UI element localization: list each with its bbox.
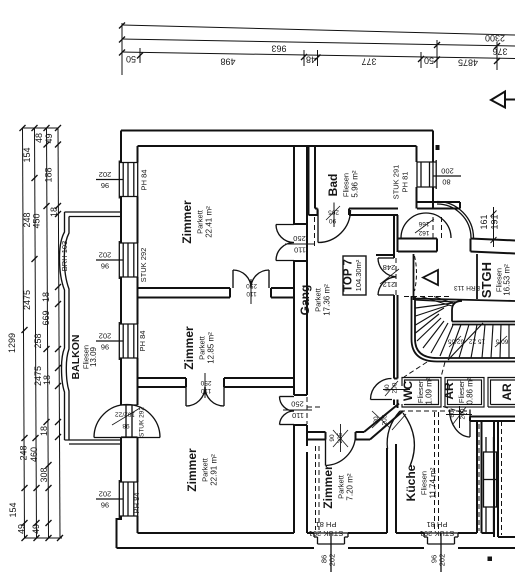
svg-text:PH 81: PH 81 bbox=[401, 172, 410, 193]
svg-text:200: 200 bbox=[441, 167, 454, 176]
svg-text:STUK 292: STUK 292 bbox=[139, 407, 146, 437]
svg-text:Bad: Bad bbox=[326, 174, 340, 197]
svg-text:250: 250 bbox=[293, 234, 306, 243]
svg-text:1.09 m²: 1.09 m² bbox=[425, 377, 434, 404]
svg-text:96: 96 bbox=[101, 501, 109, 510]
svg-text:191: 191 bbox=[490, 214, 500, 229]
svg-text:Zimmer: Zimmer bbox=[321, 465, 335, 509]
svg-text:248: 248 bbox=[19, 445, 29, 460]
svg-text:202: 202 bbox=[99, 170, 112, 179]
svg-text:202: 202 bbox=[99, 490, 112, 499]
svg-text:96: 96 bbox=[101, 181, 109, 190]
svg-text:96: 96 bbox=[101, 262, 109, 271]
svg-text:13.09: 13.09 bbox=[89, 346, 98, 367]
svg-text:154: 154 bbox=[22, 147, 32, 162]
svg-text:STUK 291: STUK 291 bbox=[420, 529, 455, 538]
svg-text:202: 202 bbox=[99, 251, 112, 260]
svg-text:12.85 m²: 12.85 m² bbox=[207, 332, 216, 364]
svg-text:Küche: Küche bbox=[404, 464, 418, 501]
svg-text:PH 84: PH 84 bbox=[132, 493, 141, 514]
svg-text:Parkett: Parkett bbox=[198, 335, 207, 360]
svg-text:15 22: 15 22 bbox=[468, 338, 485, 345]
svg-text:2475: 2475 bbox=[22, 290, 32, 310]
svg-text:AR: AR bbox=[500, 383, 514, 401]
svg-text:BRH 103: BRH 103 bbox=[60, 241, 69, 271]
svg-text:248: 248 bbox=[383, 263, 396, 272]
svg-text:Gang: Gang bbox=[298, 285, 312, 316]
svg-text:98: 98 bbox=[122, 422, 130, 429]
svg-text:376: 376 bbox=[492, 47, 507, 57]
svg-text:Parkett: Parkett bbox=[337, 474, 346, 499]
svg-text:18: 18 bbox=[42, 375, 52, 385]
svg-text:377: 377 bbox=[361, 57, 376, 67]
svg-text:49: 49 bbox=[17, 524, 27, 534]
svg-text:669: 669 bbox=[41, 310, 51, 325]
svg-text:90: 90 bbox=[329, 217, 337, 224]
svg-text:PH 84: PH 84 bbox=[140, 170, 149, 191]
svg-text:90: 90 bbox=[329, 434, 336, 442]
svg-text:11.74 m²: 11.74 m² bbox=[429, 467, 438, 498]
svg-text:450: 450 bbox=[32, 213, 42, 228]
svg-text:308: 308 bbox=[39, 467, 49, 482]
svg-text:7.20 m²: 7.20 m² bbox=[346, 473, 355, 500]
svg-text:212: 212 bbox=[383, 280, 396, 289]
svg-text:202: 202 bbox=[328, 554, 337, 567]
svg-text:PH 84: PH 84 bbox=[138, 331, 147, 352]
svg-text:110: 110 bbox=[200, 387, 211, 394]
svg-text:202: 202 bbox=[438, 554, 447, 567]
svg-text:1299: 1299 bbox=[7, 333, 17, 353]
svg-text:Zimmer: Zimmer bbox=[185, 448, 199, 492]
svg-text:BRH 113: BRH 113 bbox=[454, 284, 480, 291]
svg-text:48: 48 bbox=[306, 55, 316, 65]
svg-text:Fliesen: Fliesen bbox=[420, 471, 429, 495]
svg-text:48: 48 bbox=[34, 133, 44, 143]
svg-text:Parkett: Parkett bbox=[196, 209, 205, 234]
svg-text:22.41 m²: 22.41 m² bbox=[205, 206, 214, 238]
svg-text:80: 80 bbox=[442, 178, 450, 187]
svg-text:PH 81: PH 81 bbox=[427, 520, 448, 529]
svg-text:202: 202 bbox=[99, 332, 112, 341]
svg-text:Zimmer: Zimmer bbox=[180, 200, 194, 244]
svg-text:250: 250 bbox=[246, 282, 257, 289]
svg-text:102/22: 102/22 bbox=[115, 411, 135, 418]
svg-text:110: 110 bbox=[294, 246, 306, 255]
svg-text:154: 154 bbox=[8, 502, 18, 517]
svg-text:250: 250 bbox=[200, 379, 211, 386]
svg-text:STUK 291: STUK 291 bbox=[309, 529, 344, 538]
svg-text:Parkett: Parkett bbox=[314, 287, 323, 312]
svg-text:110: 110 bbox=[246, 290, 257, 297]
svg-text:WC: WC bbox=[401, 381, 415, 401]
svg-text:16.53 m²: 16.53 m² bbox=[503, 264, 512, 296]
svg-text:18: 18 bbox=[39, 426, 49, 436]
svg-text:BALKON: BALKON bbox=[70, 335, 82, 380]
svg-text:Zimmer: Zimmer bbox=[182, 326, 196, 370]
svg-text:161: 161 bbox=[479, 214, 489, 229]
svg-text:96: 96 bbox=[101, 343, 109, 352]
svg-text:162: 162 bbox=[418, 229, 429, 236]
svg-text:110: 110 bbox=[292, 411, 304, 420]
svg-text:460: 460 bbox=[29, 447, 39, 462]
svg-text:STUK 291: STUK 291 bbox=[392, 165, 401, 200]
svg-text:963: 963 bbox=[271, 44, 286, 54]
svg-text:205: 205 bbox=[328, 209, 339, 216]
svg-text:258: 258 bbox=[33, 333, 43, 348]
svg-text:Fliesen: Fliesen bbox=[342, 173, 351, 197]
svg-text:50: 50 bbox=[424, 56, 434, 66]
svg-text:STGH: STGH bbox=[479, 262, 494, 298]
svg-text:188: 188 bbox=[44, 167, 54, 182]
svg-text:50: 50 bbox=[126, 54, 136, 64]
svg-text:49: 49 bbox=[31, 524, 41, 534]
svg-text:Parkett: Parkett bbox=[201, 457, 210, 482]
svg-text:STUK 292: STUK 292 bbox=[139, 248, 148, 283]
svg-text:498: 498 bbox=[220, 57, 235, 67]
svg-text:248: 248 bbox=[22, 212, 32, 227]
svg-text:22.91 m²: 22.91 m² bbox=[210, 454, 219, 486]
svg-text:4875: 4875 bbox=[458, 58, 478, 68]
svg-text:AR: AR bbox=[442, 382, 456, 400]
svg-text:104.30m²: 104.30m² bbox=[354, 259, 363, 291]
svg-text:17.36 m²: 17.36 m² bbox=[323, 284, 332, 316]
svg-text:TOP 7: TOP 7 bbox=[343, 259, 355, 292]
svg-text:250: 250 bbox=[291, 400, 304, 409]
svg-text:18: 18 bbox=[41, 292, 51, 302]
svg-text:5.96 m²: 5.96 m² bbox=[351, 170, 360, 197]
svg-text:2300: 2300 bbox=[485, 33, 505, 43]
svg-text:49: 49 bbox=[44, 133, 54, 143]
svg-text:0.86 m²: 0.86 m² bbox=[466, 377, 475, 404]
svg-text:18: 18 bbox=[49, 207, 59, 217]
